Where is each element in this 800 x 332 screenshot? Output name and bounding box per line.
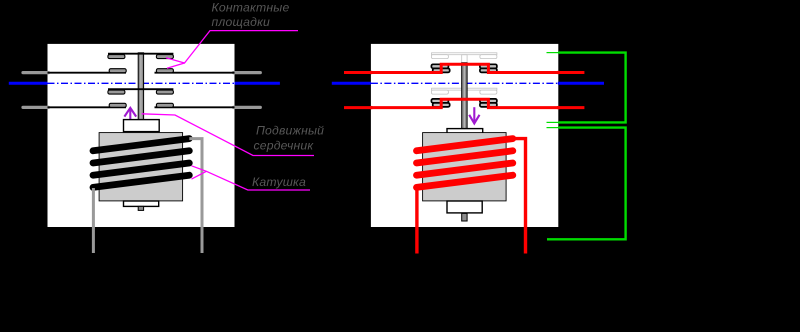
- node: upper-left red terminal: [370, 71, 373, 74]
- contact pad: upper fixed left: [433, 68, 450, 72]
- node: lower-right red terminal: [557, 106, 560, 109]
- wire: lower-left gray lead: [23, 106, 49, 109]
- arrow: core motion (down): [469, 107, 479, 123]
- wire: upper-left gray lead: [23, 71, 49, 74]
- node: upper-right terminal: [232, 71, 235, 74]
- arrow: core motion (up): [124, 108, 136, 124]
- bracket: coil group thin lead-in: [547, 127, 560, 129]
- coil winding turn 2 (red): [417, 151, 513, 163]
- contact pad: top movable left: [108, 55, 125, 59]
- coil winding turn 3: [93, 163, 189, 175]
- wire: red current path lower row: [344, 99, 584, 107]
- bracket: coil group (green): [547, 128, 626, 240]
- coil winding turn 1 (red): [417, 139, 513, 151]
- wire: blue dash-dot axis inside body: [48, 82, 235, 84]
- wire: upper-right fixed contact arm: [155, 72, 235, 74]
- wire: upper-right gray lead: [234, 71, 261, 74]
- wire: blue center-line solid right: [558, 82, 604, 85]
- bracket: contact group (green): [558, 53, 626, 123]
- contact pad: top movable right (closed): [480, 64, 497, 68]
- movable core (armature bar, pulled down): [462, 63, 467, 130]
- wire: upper-left fixed contact arm: [48, 72, 127, 74]
- wire: coil right terminal (red): [513, 139, 526, 254]
- wire: coil right terminal: [189, 139, 202, 253]
- wire: blue center-line solid left: [9, 82, 48, 85]
- pedestal (core holder): [124, 120, 160, 132]
- armature bottom tip: [138, 206, 143, 210]
- node: lower-left terminal: [46, 106, 49, 109]
- wire: blue center-line solid left: [332, 82, 371, 85]
- contact pad: lower fixed right: [480, 103, 497, 107]
- contact pad: top movable left (closed): [431, 64, 448, 68]
- relay body (white box): [371, 44, 558, 227]
- bracket: contact group thin lead-ins: [547, 52, 560, 54]
- coil body L1 (energized): [423, 133, 507, 201]
- wire: coil left terminal: [92, 188, 95, 253]
- coil body L1: [99, 133, 183, 201]
- callout: movable core label leader: [142, 114, 314, 156]
- pedestal (core holder, pulled down): [447, 129, 483, 141]
- coil winding turn 1: [93, 139, 189, 151]
- movable core (armature bar): [138, 53, 143, 120]
- coil winding turn 4 (red): [417, 175, 513, 187]
- svg-text:Контактные: Контактные: [212, 1, 290, 15]
- svg-text:Подвижный: Подвижный: [256, 124, 324, 138]
- contact pad: middle movable left: [108, 90, 125, 94]
- node: lower-left red terminal: [370, 106, 373, 109]
- svg-text:Катушка: Катушка: [252, 175, 306, 189]
- contact pad: upper fixed right: [480, 68, 497, 72]
- node: lower-right terminal: [232, 106, 235, 109]
- contact pad: upper fixed right: [156, 69, 173, 73]
- svg-text:площадки: площадки: [212, 15, 271, 29]
- contact pad: top movable right: [156, 55, 173, 59]
- contact pad: middle movable right (closed): [480, 99, 497, 103]
- contact pad: lower fixed left: [109, 103, 126, 107]
- coil bottom cap (pushed down): [447, 201, 482, 213]
- coil winding turn 2: [93, 151, 189, 163]
- wire: lower-right fixed contact arm: [155, 106, 235, 108]
- coil bottom cap: [124, 201, 159, 206]
- armature bottom tip (pulled down): [462, 213, 467, 221]
- contact pad: lower fixed left: [433, 103, 450, 107]
- contact pad: middle movable right: [156, 90, 173, 94]
- contact pad: middle movable left (closed): [431, 99, 448, 103]
- wire: blue dash-dot axis inside body: [371, 82, 558, 84]
- wire: lower-right gray lead: [234, 106, 261, 109]
- callout: contact pads label leader: [166, 31, 298, 69]
- movable contact bar (middle): [108, 88, 173, 90]
- contact pad: upper fixed left: [109, 69, 126, 73]
- node: upper-left terminal: [46, 71, 49, 74]
- coil winding turn 3 (red): [417, 163, 513, 175]
- wire: blue center-line solid right: [235, 82, 280, 85]
- ghost: former T-bar position: [431, 53, 497, 94]
- contact pad: lower fixed right: [156, 103, 173, 107]
- callout: coil label leader: [192, 166, 311, 190]
- wire: red current path upper row: [344, 64, 584, 72]
- node: upper-right red terminal: [557, 71, 560, 74]
- movable contact bar (top T-bar): [108, 53, 173, 55]
- coil winding turn 4: [93, 175, 189, 187]
- relay body (white box): [48, 44, 235, 227]
- wire: lower-left fixed contact arm: [48, 106, 127, 108]
- wire: coil left terminal (red): [415, 188, 418, 254]
- svg-text:сердечник: сердечник: [254, 138, 315, 152]
